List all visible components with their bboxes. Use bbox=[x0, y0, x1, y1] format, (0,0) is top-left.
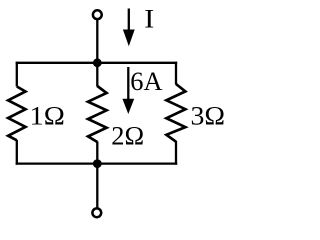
wire (top terminal to top node) bbox=[96, 20, 98, 63]
svg-text:3Ω: 3Ω bbox=[191, 101, 226, 131]
current arrow I (into top terminal) bbox=[123, 9, 135, 47]
svg-text:1Ω: 1Ω bbox=[30, 100, 65, 130]
svg-text:6A: 6A bbox=[130, 66, 162, 96]
wire (right branch top) bbox=[175, 62, 177, 85]
wire (left branch top) bbox=[16, 62, 18, 87]
wire (left branch bottom) bbox=[16, 140, 18, 165]
svg-text:I: I bbox=[144, 3, 154, 33]
wire (top rail) bbox=[16, 62, 178, 64]
wire (bottom node to bottom terminal) bbox=[96, 164, 98, 208]
node B (bottom junction dot) bbox=[93, 159, 102, 168]
current arrow 6A (into middle branch) bbox=[122, 67, 134, 114]
resistor R2 (2 ohm, middle branch) bbox=[88, 86, 107, 142]
wire (middle branch bottom) bbox=[96, 142, 98, 165]
wire (middle branch top) bbox=[96, 63, 98, 87]
terminal T1 (top, open circle) bbox=[93, 10, 102, 19]
node A (top junction dot) bbox=[93, 58, 102, 67]
wire (right branch bottom) bbox=[175, 141, 177, 165]
svg-text:2Ω: 2Ω bbox=[111, 121, 144, 151]
terminal T2 (bottom, open circle) bbox=[92, 208, 101, 217]
wire (bottom rail) bbox=[16, 162, 178, 164]
resistor R1 (1 ohm, left branch) bbox=[8, 87, 25, 141]
resistor R3 (3 ohm, right branch) bbox=[166, 84, 185, 142]
